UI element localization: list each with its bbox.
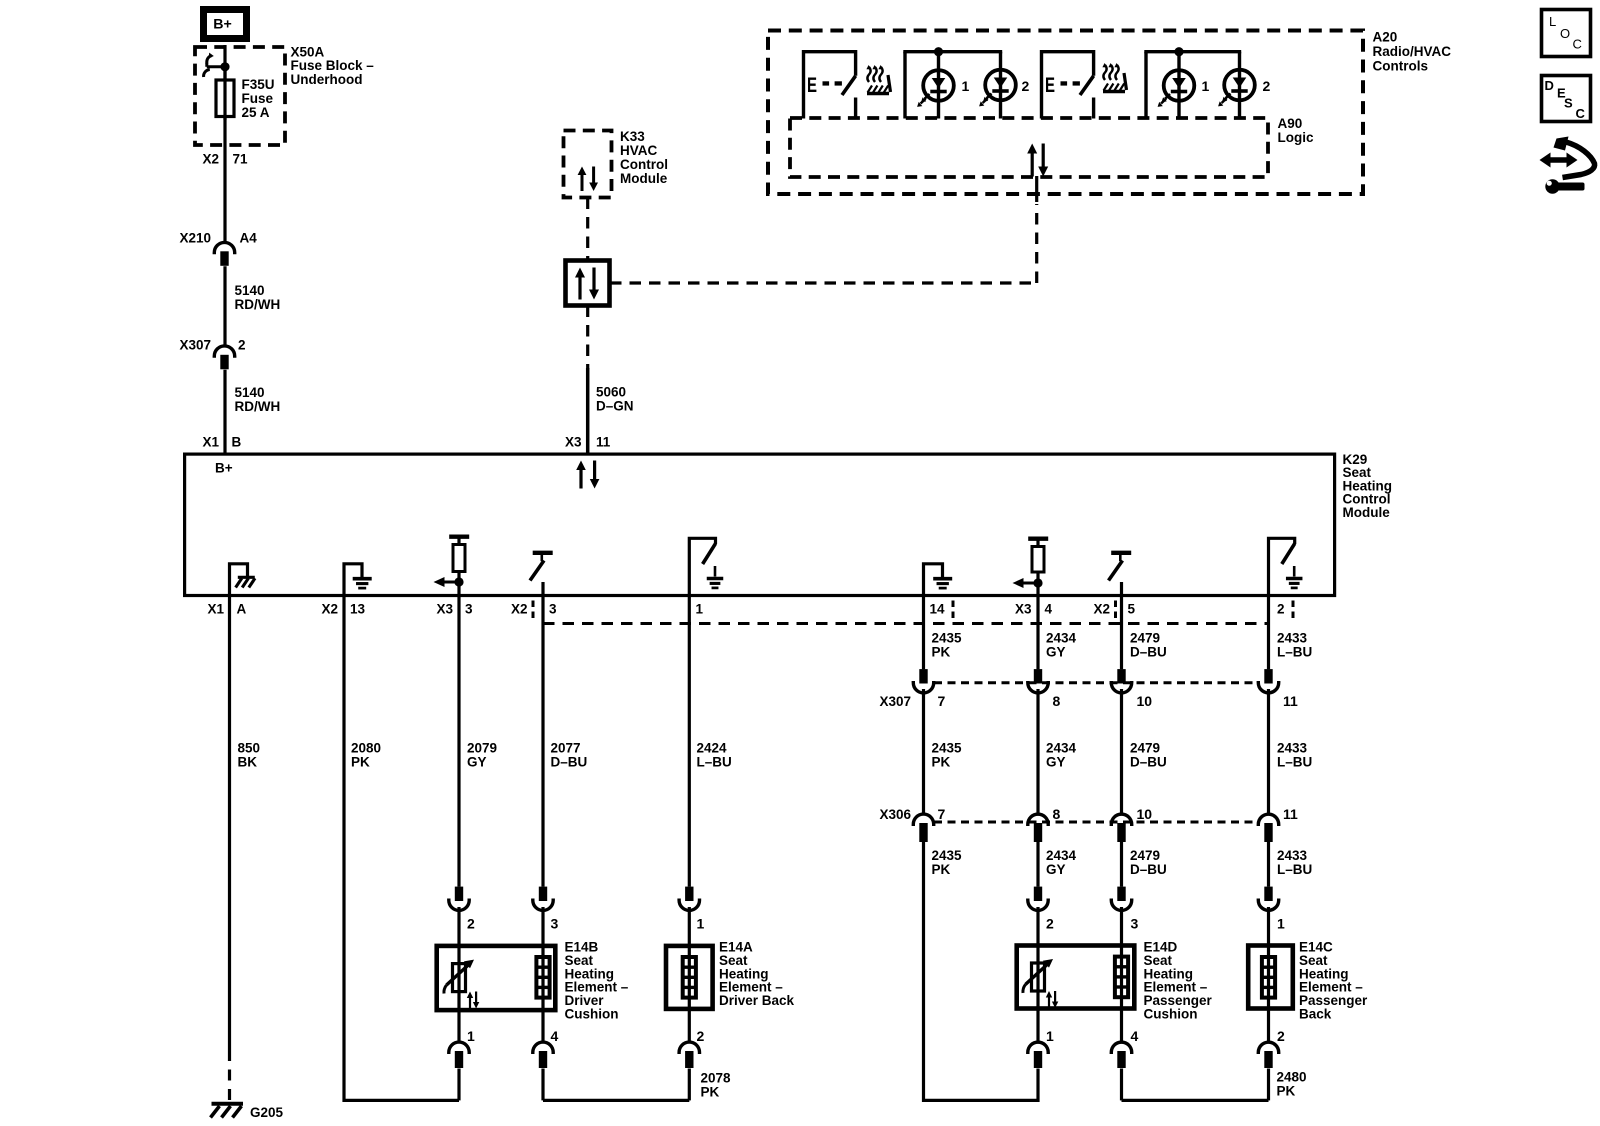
svg-text:2: 2	[1277, 602, 1285, 617]
icon button DESC	[1542, 76, 1591, 122]
driver heated seat icon	[866, 65, 890, 94]
svg-text:2: 2	[467, 916, 475, 932]
connector X306 pin 7	[913, 814, 933, 842]
svg-text:2433L–BU: 2433L–BU	[1277, 848, 1312, 877]
label wire 2480 PK	[1277, 1070, 1307, 1099]
svg-text:71: 71	[233, 152, 249, 167]
label B+ internal	[215, 461, 233, 476]
label F35U Fuse 25 A	[242, 77, 275, 120]
svg-text:1: 1	[1046, 1028, 1054, 1044]
wire stub into A90 logic	[1035, 176, 1038, 202]
label E14D Seat Heating Element Passenger Cushion	[1144, 940, 1213, 1022]
svg-text:X3: X3	[1015, 602, 1032, 617]
svg-text:2: 2	[1277, 1028, 1285, 1044]
label A90 Logic	[1278, 116, 1314, 145]
svg-text:7: 7	[938, 806, 946, 822]
dashed wire K33 to interface box	[586, 198, 589, 261]
label wire 2435 PK	[932, 741, 963, 770]
label wire 850 BK	[238, 741, 261, 770]
LED indicator 2 passenger	[1218, 70, 1255, 107]
svg-text:X306: X306	[879, 807, 911, 822]
label X307	[879, 694, 911, 709]
heater element in E14D	[1115, 944, 1128, 1011]
svg-text:X3: X3	[565, 435, 582, 450]
svg-text:2: 2	[238, 338, 246, 353]
label wire 2435 PK	[932, 848, 963, 877]
svg-text:13: 13	[350, 602, 366, 617]
wire 2433 L-BU segment 2	[1267, 689, 1270, 813]
wire 2434 GY segment 3	[1036, 842, 1039, 887]
svg-text:X1: X1	[207, 602, 224, 617]
heater element in E14A	[683, 944, 696, 1011]
dashed harness line X2	[543, 622, 1269, 625]
fuse block X50A dashed box	[195, 47, 285, 145]
label wire 2433 L-BU	[1277, 631, 1312, 660]
icon button LOC	[1542, 10, 1591, 57]
switch S2 passenger seat heat button	[1042, 52, 1094, 119]
svg-text:G205: G205	[250, 1105, 284, 1120]
svg-text:X2: X2	[511, 602, 528, 617]
wire 2079 GY	[457, 597, 460, 887]
fuse F35U 25 A	[216, 67, 234, 120]
svg-text:7: 7	[938, 693, 946, 709]
label wire 2433 L-BU	[1277, 848, 1312, 877]
wire 2435 PK segment 2	[922, 689, 925, 813]
heater element in E14C	[1262, 944, 1275, 1011]
label wire 2434 GY	[1046, 631, 1077, 660]
svg-text:2424L–BU: 2424L–BU	[697, 741, 732, 770]
wire 2080 PK	[344, 597, 459, 1100]
internal chassis ground pin X1-A	[230, 564, 256, 597]
svg-text:B: B	[232, 435, 242, 450]
label wire 2077 D-BU	[551, 741, 588, 770]
connector X306 pin 11	[1258, 814, 1278, 842]
pin label 2	[467, 916, 475, 932]
svg-text:X1: X1	[202, 435, 219, 450]
element E14A Seat Heating Element Driver Back box	[666, 946, 713, 1009]
svg-text:X307: X307	[179, 338, 211, 353]
label wire 2479 D-BU	[1130, 741, 1167, 770]
connector X306 pin 8	[1028, 814, 1048, 842]
serial data arrows in A90	[1027, 144, 1048, 177]
label wire 2435 PK	[932, 631, 963, 660]
wire 2434 GY segment 2	[1036, 689, 1039, 813]
internal low side switch pin 2	[1269, 538, 1303, 597]
serial data interface box	[566, 261, 610, 306]
connector below E14D pin 1	[1028, 1011, 1048, 1069]
svg-text:1: 1	[467, 1028, 475, 1044]
inline connector on 2424 L-BU	[679, 887, 699, 911]
module K29 Seat Heating Control Module box	[185, 454, 1335, 595]
label E14A Seat Heating Element Driver Back	[719, 940, 795, 1009]
svg-text:3: 3	[1131, 916, 1139, 932]
connector X307 pin 2	[179, 338, 245, 370]
pin label 2 with connector mark	[1277, 601, 1293, 621]
pin label 2	[1277, 1028, 1285, 1044]
pin label 1	[467, 1028, 475, 1044]
wire 2424 L-BU	[688, 597, 691, 887]
svg-text:X2: X2	[202, 152, 219, 167]
label wire 5140 RD/WH upper	[235, 283, 281, 312]
module A90 Logic dashed box	[790, 118, 1268, 177]
serial data arrows in K33	[578, 167, 598, 192]
pin labels X2 3 with connector mark	[511, 601, 557, 621]
pin label 8	[1053, 806, 1061, 822]
connector below E14B pin 4	[533, 1012, 553, 1100]
svg-text:E: E	[807, 74, 817, 97]
svg-text:1: 1	[1202, 78, 1210, 94]
wire 2435 PK segment from pin 14	[922, 597, 925, 669]
pin label 1	[1277, 916, 1285, 932]
connector below E14B pin 1	[449, 1012, 469, 1100]
wire 2434 GY segment from pin X3-4	[1036, 597, 1039, 669]
LED indicator 1 passenger	[1158, 70, 1195, 107]
element E14C Seat Heating Element Passenger Back box	[1248, 946, 1293, 1009]
pin label 10	[1137, 806, 1153, 822]
wire into E14D pin 3	[1120, 907, 1123, 944]
pin labels X2 5 with connector mark	[1093, 601, 1135, 621]
internal ground pin 14	[924, 564, 953, 597]
inline connector on 2433 L-BU	[1258, 887, 1278, 911]
pin label 4	[1131, 1028, 1139, 1044]
svg-text:2: 2	[1263, 78, 1271, 94]
label wire 2434 GY	[1046, 741, 1077, 770]
wire B+ to fuse F35U	[223, 45, 226, 80]
wire 2433 L-BU segment from pin 2	[1267, 597, 1270, 669]
connector X307 pin 7	[913, 669, 933, 693]
inline connector on 2079 GY	[449, 887, 469, 911]
svg-text:14: 14	[930, 602, 946, 617]
connector X307 pin 10	[1111, 669, 1131, 693]
pin label 14 with connector mark	[930, 601, 954, 621]
pin label 3	[551, 916, 559, 932]
thermistor in E14B	[444, 944, 479, 1012]
internal temperature sense pin X3-4	[1013, 539, 1049, 597]
wire 2480 PK	[1122, 1069, 1269, 1101]
label X50A Fuse Block - Underhood	[291, 45, 375, 87]
indicator LEDs passenger with wires	[1144, 47, 1241, 118]
svg-text:2: 2	[1046, 916, 1054, 932]
label K29 Seat Heating Control Module	[1343, 452, 1393, 520]
pin labels X3 4	[1015, 602, 1053, 617]
svg-text:850BK: 850BK	[238, 741, 261, 770]
svg-text:B+: B+	[213, 17, 232, 33]
pin label 1	[696, 602, 704, 617]
wire into E14B pin 2	[457, 907, 460, 944]
ground G205	[211, 1104, 244, 1118]
label wire 2479 D-BU	[1130, 848, 1167, 877]
connector below E14D pin 4	[1111, 1011, 1131, 1101]
svg-text:A: A	[237, 602, 247, 617]
LED indicator 1 driver	[917, 70, 954, 107]
dashed wire interface box to 5060 wire	[586, 306, 589, 370]
wire fuse to pin X2-71	[223, 116, 226, 242]
pin label 1	[697, 916, 705, 932]
svg-text:10: 10	[1137, 693, 1153, 709]
svg-text:11: 11	[1283, 806, 1298, 822]
svg-text:11: 11	[596, 435, 611, 450]
connector X210 pin A4	[179, 231, 257, 266]
svg-text:A4: A4	[240, 231, 258, 246]
label K33 HVAC Control Module	[620, 129, 668, 186]
inline connector on 2479 D-BU	[1111, 887, 1131, 911]
label 1	[962, 78, 970, 94]
fuse block terminal and junction	[204, 53, 230, 77]
pin label 4	[551, 1028, 559, 1044]
label G205	[250, 1105, 284, 1120]
label wire 2080 PK	[351, 741, 381, 770]
heater element in E14B	[536, 944, 549, 1012]
label wire 2479 D-BU	[1130, 631, 1167, 660]
pin labels X2 13	[321, 602, 365, 617]
wire into E14D pin 2	[1036, 907, 1039, 944]
label E14B Seat Heating Element Driver Cushion	[565, 940, 629, 1022]
svg-text:B+: B+	[215, 461, 233, 476]
connector X307 pin 8	[1028, 669, 1048, 693]
wire 2433 L-BU segment 3	[1267, 842, 1270, 887]
pin label 11	[1283, 693, 1298, 709]
pin labels X3 11	[565, 435, 611, 450]
svg-text:2433L–BU: 2433L–BU	[1277, 631, 1312, 660]
label wire 5140 RD/WH lower	[235, 385, 281, 414]
element E14D Seat Heating Element Passenger Cushion box	[1017, 946, 1135, 1009]
svg-text:2: 2	[697, 1028, 705, 1044]
svg-text:1: 1	[1277, 916, 1285, 932]
pin label 1	[1046, 1028, 1054, 1044]
svg-text:L: L	[1549, 14, 1556, 29]
pin label 7	[938, 693, 946, 709]
connector below E14C pin 2	[1258, 1011, 1278, 1069]
switch S1 driver seat heat button	[804, 52, 856, 119]
power symbol B+	[204, 10, 247, 39]
svg-text:4: 4	[551, 1028, 559, 1044]
indicator LEDs driver with wires	[903, 47, 1002, 118]
LED indicator 2 driver	[979, 70, 1016, 107]
svg-text:D: D	[1545, 78, 1554, 93]
svg-text:E: E	[1045, 74, 1055, 97]
svg-text:4: 4	[1131, 1028, 1139, 1044]
internal ground pin X2-13	[344, 564, 372, 597]
svg-text:X307: X307	[879, 694, 911, 709]
label E14C Seat Heating Element Passenger Back	[1299, 940, 1368, 1022]
wire 2479 D-BU segment from pin X2-5	[1120, 597, 1123, 669]
pin labels X2 71	[202, 152, 248, 167]
label wire 2078 PK	[701, 1071, 732, 1100]
wire 5140 RD/WH middle	[223, 266, 226, 346]
svg-text:1: 1	[962, 78, 970, 94]
svg-text:X2: X2	[321, 602, 338, 617]
dashed serial data wire to A90	[610, 204, 1037, 283]
internal temperature sense pin X3-3	[434, 537, 470, 597]
wire 2479 D-BU segment 2	[1120, 689, 1123, 813]
pin label 8	[1053, 693, 1061, 709]
label 2	[1263, 78, 1271, 94]
label 2	[1022, 78, 1030, 94]
wire 2479 D-BU segment 3	[1120, 842, 1123, 887]
label X306	[879, 807, 911, 822]
svg-text:S: S	[1564, 96, 1573, 111]
wire into E14B pin 3	[541, 907, 544, 944]
svg-text:11: 11	[1283, 693, 1298, 709]
thermistor in E14D	[1023, 944, 1058, 1011]
internal low side switch pin 1	[689, 538, 723, 597]
internal switch pin X2-5	[1109, 553, 1132, 597]
wire into E14C pin 1	[1267, 907, 1270, 944]
svg-text:1: 1	[697, 916, 705, 932]
svg-text:C: C	[1576, 106, 1586, 121]
inline connector on 2434 GY	[1028, 887, 1048, 911]
label wire 5060 D-GN	[596, 385, 634, 414]
pin labels X1 B	[202, 435, 241, 450]
wire 5060 D-GN to K29 pin X3-11	[586, 368, 590, 453]
internal switch pin X2-3	[530, 553, 553, 597]
wire 2078 PK	[543, 1069, 689, 1101]
label wire 2434 GY	[1046, 848, 1077, 877]
label wire 2433 L-BU	[1277, 741, 1312, 770]
svg-text:1: 1	[696, 602, 704, 617]
svg-text:C: C	[1573, 37, 1582, 52]
pin label 3	[1131, 916, 1139, 932]
label 1	[1202, 78, 1210, 94]
connector X306 pin 10	[1111, 814, 1131, 842]
icon tools navigation	[1540, 137, 1595, 194]
wire 2077 D-BU	[541, 597, 544, 887]
svg-text:4: 4	[1045, 602, 1053, 617]
serial data arrows at pin X3-11	[576, 461, 599, 489]
svg-text:X3: X3	[436, 602, 453, 617]
pin label 7	[938, 806, 946, 822]
svg-text:X2: X2	[1093, 602, 1110, 617]
pin labels X3 3	[436, 602, 473, 617]
module K33 HVAC Control Module dashed box	[564, 131, 612, 198]
pin label 2	[697, 1028, 705, 1044]
svg-text:3: 3	[551, 916, 559, 932]
wire 2435 PK segment 3 to E14D pin 1	[924, 842, 1039, 1101]
svg-text:O: O	[1560, 26, 1570, 41]
svg-text:10: 10	[1137, 806, 1153, 822]
svg-text:3: 3	[549, 602, 557, 617]
element E14B Seat Heating Element Driver Cushion box	[437, 946, 556, 1010]
svg-text:8: 8	[1053, 806, 1061, 822]
wire 850 BK ground path	[228, 597, 231, 1101]
svg-text:2: 2	[1022, 78, 1030, 94]
svg-text:3: 3	[465, 602, 473, 617]
connector below E14A pin 2	[679, 1011, 699, 1068]
wire 5140 RD/WH to K29 pin X1-B	[223, 370, 226, 453]
label A20 Radio/HVAC Controls	[1373, 30, 1452, 74]
svg-text:2433L–BU: 2433L–BU	[1277, 741, 1312, 770]
passenger heated seat icon	[1102, 63, 1126, 92]
pin label 2	[1046, 916, 1054, 932]
label wire 2424 L-BU	[697, 741, 732, 770]
pin label 10	[1137, 693, 1153, 709]
label wire 2079 GY	[467, 741, 497, 770]
svg-text:X210: X210	[179, 231, 211, 246]
wire into E14A pin 1	[688, 907, 691, 944]
module A20 Radio/HVAC Controls dashed box	[768, 31, 1363, 195]
dashed connector line X307	[934, 681, 1258, 684]
pin label 11	[1283, 806, 1298, 822]
svg-text:5: 5	[1128, 602, 1136, 617]
pin labels X1 A	[207, 602, 246, 617]
dashed connector line X306	[934, 821, 1258, 824]
svg-text:8: 8	[1053, 693, 1061, 709]
connector X307 pin 11	[1258, 669, 1278, 693]
inline connector on 2077 D-BU	[533, 887, 553, 911]
